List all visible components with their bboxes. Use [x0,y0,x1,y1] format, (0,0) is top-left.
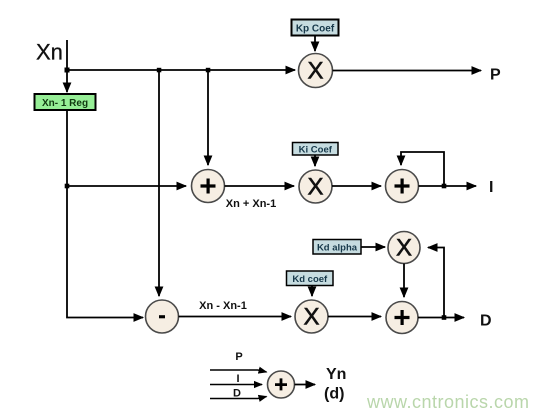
svg-text:Kd coef: Kd coef [292,274,328,285]
adder circle D output [386,302,418,334]
wire Kp Coef to multiplier [314,36,316,52]
junction at Xn line and top bus [65,68,70,73]
wire Kd multiplier to D adder [328,316,381,318]
svg-text:Kd alpha: Kd alpha [317,243,358,254]
wire Xn-1 branch to I adder [67,185,186,187]
svg-text:(d): (d) [324,386,344,403]
wire I output line [419,185,477,187]
multiplier circle Kd [295,300,328,333]
wire branch down to I adder [207,70,209,165]
svg-text:X: X [303,304,319,331]
wire P output line [333,70,482,72]
svg-text:X: X [307,174,323,201]
svg-text:Yn: Yn [326,366,346,383]
wire I into final adder [210,384,262,386]
coefficient box Ki Coef [293,143,339,156]
svg-text:I: I [489,179,493,196]
wire D feedback loop [428,248,444,318]
wire P into final adder [210,370,267,372]
wire D into final adder [210,397,267,399]
svg-text:X: X [307,58,323,85]
svg-text:Ki Coef: Ki Coef [299,144,333,155]
wire I adder to Ki multiplier [225,185,295,187]
svg-text:D: D [480,313,492,330]
adder circle I-row sum [192,170,225,203]
wire minus to Kd multiplier [179,316,292,318]
wire I feedback loop [401,152,444,186]
coefficient box Kd alpha [313,240,361,255]
adder circle final sum [268,371,295,398]
wire branch down to minus circle [158,70,160,296]
coefficient box Kp Coef [292,20,339,36]
svg-text:Xn: Xn [36,40,63,65]
svg-text:Xn + Xn-1: Xn + Xn-1 [226,198,276,210]
svg-text:X: X [396,235,412,262]
register box Xn-1 Reg [35,94,96,110]
svg-text:Kp Coef: Kp Coef [296,24,335,35]
wire Ki Coef to multiplier [314,155,316,166]
wire Kd alpha multiplier to D adder [403,264,405,298]
subtractor circle minus [146,300,179,333]
junction top bus branch 2 [206,68,211,73]
wire D output line [418,317,464,319]
svg-text:Xn - Xn-1: Xn - Xn-1 [199,300,247,312]
junction top bus branch 1 [157,68,162,73]
svg-text:I: I [236,373,239,385]
wire Kd coef to multiplier [311,286,313,297]
junction I feedback [442,184,447,189]
multiplier circle Ki [299,170,332,203]
junction D feedback [442,315,447,320]
svg-text:Xn- 1 Reg: Xn- 1 Reg [42,98,88,109]
coefficient box Kd coef [287,271,334,286]
adder circle I output [386,170,419,203]
wire Xn input vertical [66,40,68,92]
junction Xn-1 branch to I adder [65,184,70,189]
wire Kd alpha to multiplier [361,246,385,248]
svg-text:P: P [235,351,242,363]
wire top horizontal bus [67,69,295,71]
wire Yn output [295,384,316,386]
wire Xn-1 Reg output vertical down [67,110,143,318]
multiplier circle Kp [299,54,333,88]
svg-text:P: P [490,67,501,84]
svg-text:www.cntronics.com: www.cntronics.com [366,392,530,412]
multiplier circle Kd alpha [388,232,420,264]
wire Ki multiplier to I output adder [332,185,381,187]
